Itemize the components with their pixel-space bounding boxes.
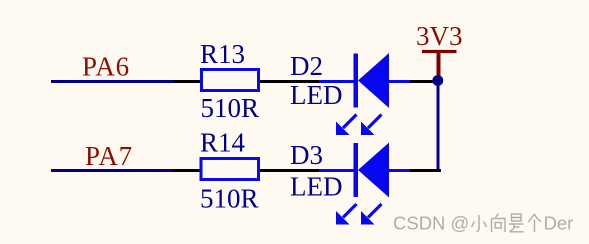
LED D3 cathode bar — [354, 143, 359, 197]
pin 1 of resistor R14 — [172, 169, 200, 172]
svg-text:LED: LED — [290, 80, 342, 110]
wire net PA7 horizontal — [51, 169, 172, 172]
pin 2 of resistor R13 — [260, 80, 319, 83]
power symbol 3V3 bar — [422, 50, 457, 53]
LED D2 light arrow 1 — [336, 115, 357, 136]
watermark glyph xiang — [492, 214, 506, 233]
junction dot — [432, 75, 443, 86]
LED D3 triangle — [358, 143, 389, 198]
LED D3 light arrow 1 — [336, 204, 357, 225]
svg-text:Der: Der — [544, 213, 574, 234]
LED D2 right lead stub — [389, 80, 410, 83]
pin 2 of LED D2 — [410, 80, 435, 83]
LED D3 left lead stub — [319, 169, 354, 172]
LED D2 left lead stub — [319, 80, 354, 83]
watermark glyph ge — [529, 214, 542, 232]
resistor R14 body — [201, 159, 259, 180]
svg-text:3V3: 3V3 — [416, 21, 463, 51]
wire vertical from 3V3 junction down — [437, 81, 440, 171]
LED D3 right lead stub — [389, 169, 410, 172]
pin 2 of LED D3 (corner up to 3V3) — [410, 169, 440, 171]
pin 2 of resistor R14 — [260, 169, 319, 172]
svg-text:510R: 510R — [200, 184, 259, 214]
svg-text:D2: D2 — [290, 51, 323, 81]
wire net PA6 horizontal — [51, 80, 173, 83]
svg-text:PA7: PA7 — [85, 141, 133, 171]
resistor R13 body — [202, 70, 259, 91]
LED D3 light arrow 2 — [361, 204, 382, 225]
svg-text:510R: 510R — [201, 93, 260, 123]
watermark glyph xiao — [472, 215, 487, 231]
pin 1 of resistor R13 — [173, 80, 200, 83]
LED D2 light arrow 2 — [361, 115, 382, 136]
svg-text:D3: D3 — [290, 140, 323, 170]
LED D2 cathode bar — [354, 54, 359, 108]
svg-text:LED: LED — [290, 172, 342, 202]
svg-text:R13: R13 — [200, 39, 245, 69]
svg-text:PA6: PA6 — [82, 52, 130, 82]
LED D2 triangle — [358, 53, 389, 108]
svg-text:R14: R14 — [200, 128, 246, 158]
watermark glyph shi — [509, 214, 524, 232]
power symbol 3V3 stem — [437, 52, 441, 77]
svg-text:CSDN @: CSDN @ — [393, 213, 469, 234]
